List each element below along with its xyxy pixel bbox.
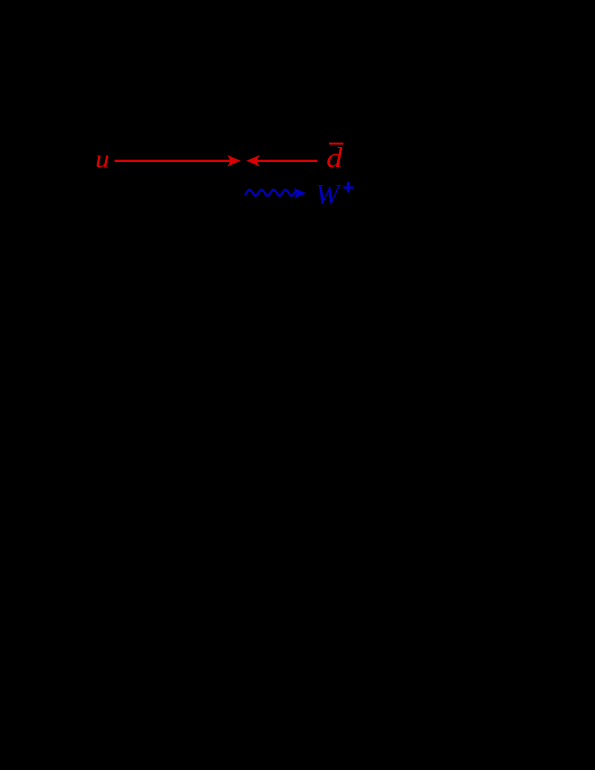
- svg-text:W: W: [316, 180, 342, 211]
- svg-text:u: u: [95, 145, 109, 174]
- svg-text:d: d: [326, 142, 343, 174]
